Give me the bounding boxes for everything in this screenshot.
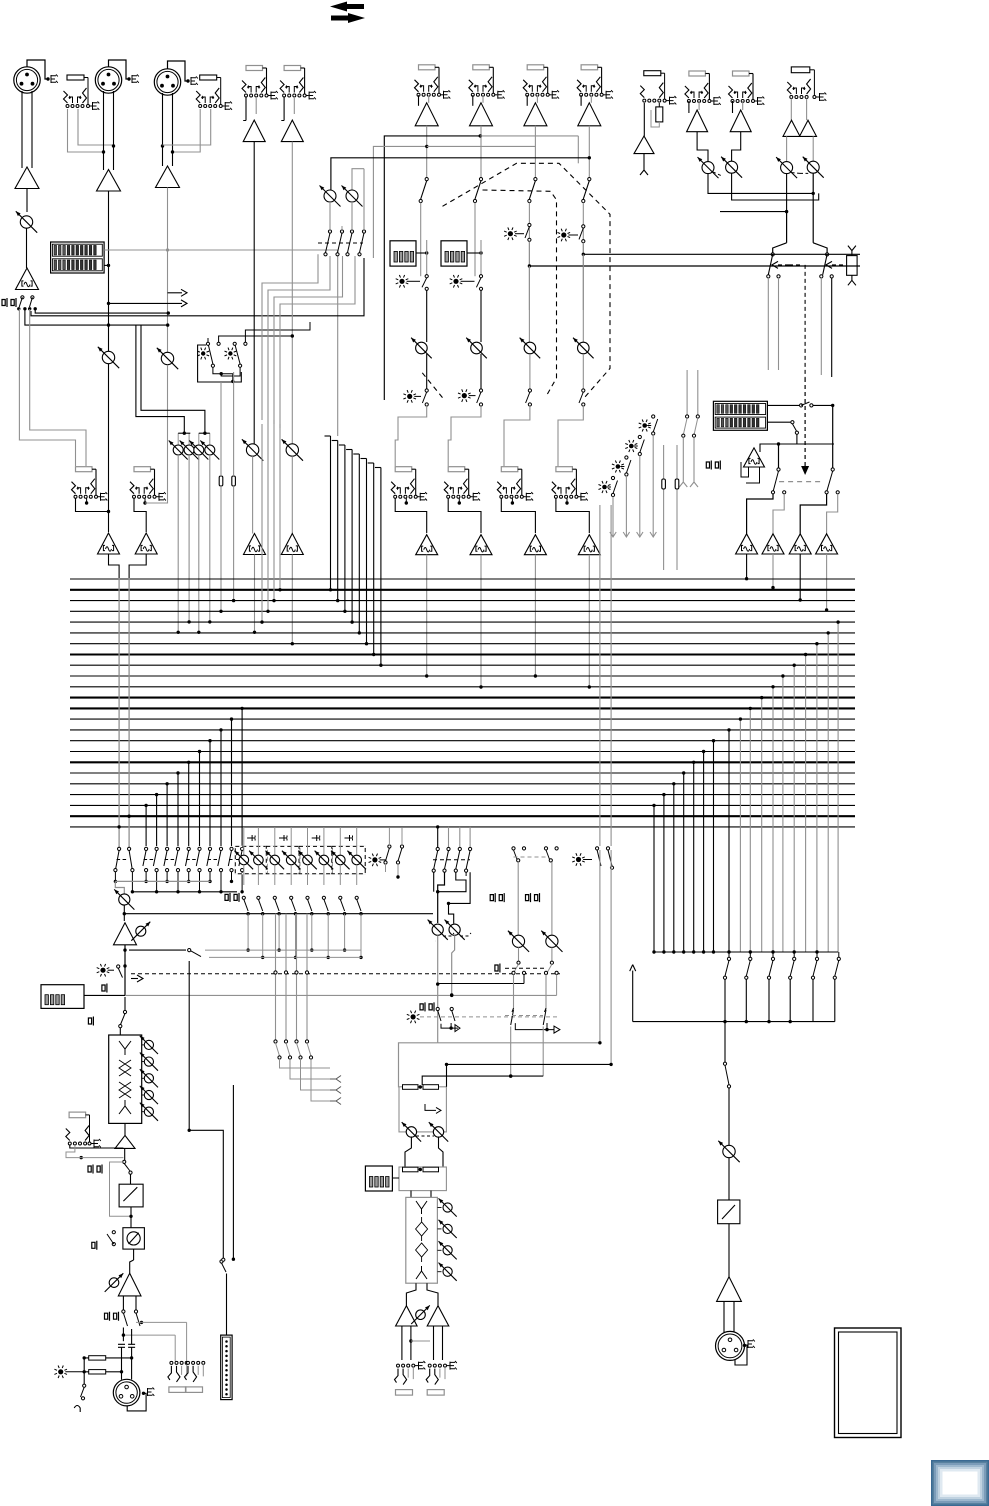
aux stereo amp 2: [730, 110, 751, 132]
LR wires to resistor net: [438, 983, 524, 985]
insert jack CH2: [76, 467, 93, 472]
wire jack3 down: [173, 109, 201, 152]
dashed vertical to master: [804, 265, 806, 378]
GEQ out amp: [124, 1123, 126, 1135]
master bus amps: [736, 534, 758, 554]
crossover box: [410, 1191, 412, 1198]
cross wires y135-157: [384, 136, 480, 400]
stereo line jack S1: [246, 66, 263, 71]
phones mixdown: [420, 1002, 425, 1011]
phones icon below pan: [225, 893, 230, 902]
return wire lower: [422, 1076, 543, 1085]
line jack CH3: [200, 75, 217, 80]
wire join tape: [786, 192, 813, 194]
switch CH7 CH8 low: [528, 389, 531, 392]
line input jack CH6: [473, 65, 490, 70]
line input jack CH7: [527, 65, 544, 70]
jack box wires S2: [283, 97, 285, 121]
limiter block main: [130, 1174, 132, 1184]
graphic EQ pots: [144, 1040, 153, 1049]
EQ box small mid: [365, 1166, 392, 1191]
phones aux masters: [490, 893, 495, 902]
dashed routing hexagon inner: [483, 190, 557, 395]
pan mode icons: [247, 835, 255, 841]
monitor out jacks: [397, 1364, 400, 1367]
monitor amps: [406, 1283, 416, 1306]
pan pot dashed boxes: [235, 846, 267, 873]
wire CH8 down: [588, 126, 590, 179]
wire meter row2: [104, 264, 108, 266]
record select switch box: [198, 345, 242, 382]
aux master wires horiz: [205, 949, 362, 951]
mixdown switch columns: [436, 825, 439, 828]
strip switch CH7: [534, 178, 537, 181]
input amp CH8: [578, 103, 601, 126]
aux stereo amp 1: [687, 110, 708, 132]
gray loop to resistor network: [399, 1043, 438, 1087]
bus left vertical pair: [118, 578, 120, 847]
group assign switch bank: [118, 847, 121, 850]
mute LED+switch CH8: [561, 232, 566, 237]
mono line jack with resistor: [644, 71, 661, 76]
channel pots CH2 CH3: [102, 351, 114, 363]
monitor pots pair: [324, 190, 336, 202]
termination resistor: [656, 107, 663, 122]
main out jacks: [170, 1361, 173, 1364]
mono out amp: [717, 1277, 742, 1302]
wire CH2 XLR to preamp: [103, 91, 105, 170]
bus top mini staircase: [291, 642, 294, 645]
gray bus return wires: [599, 505, 601, 846]
aux master insert switches: [518, 947, 520, 961]
assign bank pair dashes: [117, 859, 128, 861]
bus left staircase taps: [145, 805, 147, 846]
XLR input CH3: [154, 69, 180, 95]
DB25 feed: [226, 1274, 228, 1336]
preamp A2: [97, 170, 121, 192]
wire CH6 down: [480, 126, 482, 179]
XLR input CH2: [95, 67, 121, 93]
solo feed lines: [686, 370, 688, 415]
phase switch: [112, 1231, 115, 1234]
mute switches CH1: [21, 296, 24, 299]
dashed mono arrow: [804, 378, 806, 468]
line amp S1: [243, 120, 265, 142]
aux master pots: [512, 935, 524, 947]
phase reverse block: [123, 1228, 144, 1249]
wire to mono amp: [728, 1224, 730, 1277]
line jack CH1: [67, 75, 84, 80]
mix bus lines: [70, 578, 855, 580]
aux master down wires: [510, 1027, 512, 1077]
wire top routing 1: [363, 169, 365, 230]
wire meter row1 to CH3: [104, 249, 338, 251]
legend box: [835, 1328, 902, 1438]
dashed talkback line: [131, 973, 560, 975]
output caps: [118, 1344, 125, 1347]
meter wire L: [767, 404, 799, 406]
crossover pots: [443, 1203, 452, 1212]
main XLR out: [113, 1379, 140, 1406]
aux master lines: [517, 862, 519, 936]
solo bus arrow up: [632, 971, 634, 1022]
aux send wires CH7 CH8: [528, 241, 530, 266]
signal direction arrows: [330, 2, 364, 12]
main out tap wires: [136, 1321, 187, 1323]
wire CH5 down: [426, 126, 428, 179]
graphic EQ box: [109, 1035, 142, 1123]
return wire upper: [447, 1064, 612, 1086]
fader switch row: [242, 896, 245, 899]
ground lift switch: [83, 1372, 85, 1384]
gain pot CH1: [20, 216, 32, 228]
EQ block CH6: [441, 241, 467, 266]
aux post arrow: [515, 1023, 554, 1030]
wire CH7 down: [534, 126, 536, 179]
power LED: [58, 1369, 63, 1374]
strip switch CH5: [425, 178, 428, 181]
wire pot to limiter amp: [26, 228, 28, 268]
input amp CH7: [524, 103, 547, 126]
bus right bar: [654, 951, 838, 953]
EQ to main box: [41, 985, 84, 1009]
comp amp CH3: [135, 533, 157, 554]
output resistors: [89, 1356, 106, 1360]
monitor bank wires down-left: [262, 254, 318, 420]
left master wire down: [124, 945, 126, 996]
tape patch points: [220, 382, 222, 475]
antenna below amp: [643, 154, 645, 165]
line input jack CH8: [581, 65, 598, 70]
aux master top switches: [512, 847, 515, 850]
strip wires upper: [420, 225, 422, 276]
level pots CH5-8: [416, 342, 428, 354]
EQ LED+switch CH5: [399, 279, 404, 284]
wire A1 out: [26, 189, 28, 213]
comp amp CH2: [98, 533, 120, 554]
phones left2: [102, 984, 107, 993]
XLR input CH1: [14, 67, 40, 93]
aux stereo jack 2: [733, 71, 750, 76]
input amp CH5: [415, 103, 438, 126]
direct out arrows: [168, 292, 172, 294]
dashed routing hexagon outer: [443, 163, 611, 397]
page corner button: [931, 1460, 989, 1506]
network pots: [406, 1127, 416, 1137]
insert jack CH3: [134, 467, 151, 472]
left master pot: [115, 881, 124, 893]
aux stereo jack 1: [689, 71, 706, 76]
aux feed wires: [178, 432, 190, 434]
dashed gray link: [779, 481, 824, 483]
EQ block CH5: [390, 241, 416, 266]
monitor wires down: [767, 278, 769, 370]
switch to GEQ: [123, 1010, 126, 1013]
line amp mono: [643, 103, 645, 136]
mixdown LED: [411, 1014, 416, 1019]
phones phase: [92, 1241, 97, 1250]
monitor LED: [100, 968, 105, 973]
matrix level pot: [723, 1145, 735, 1157]
wire S2 down: [291, 142, 293, 445]
wire A3 out: [167, 188, 169, 353]
aux master switches right: [596, 847, 599, 850]
aux return wires: [70, 1145, 124, 1148]
monitor source switches: [771, 253, 774, 256]
pan LED+switch CH5: [407, 394, 412, 399]
wires to master amps: [747, 494, 773, 534]
main out switches: [122, 1310, 125, 1313]
wires to insert jacks: [395, 406, 427, 466]
wire jack1 down: [68, 109, 104, 152]
aux send pots row: [177, 433, 179, 444]
wire comp CH2 to bus: [109, 554, 120, 578]
wire CH3 XLR to preamp: [162, 93, 164, 166]
phones main2: [105, 1312, 110, 1321]
input amp CH6: [470, 103, 493, 126]
aux master faders: [511, 1010, 514, 1025]
wires pair1 to mix: [697, 132, 708, 162]
monitor out wires: [401, 1326, 403, 1360]
record box feeds: [219, 336, 293, 342]
aux master contacts row: [274, 971, 277, 974]
matrix limiter box: [718, 1200, 740, 1224]
wire CH1 XLR to preamp: [21, 91, 23, 168]
resistor network upper: [399, 1087, 446, 1132]
meter LED bargraph CH1: [51, 242, 105, 273]
dashed select arrows: [777, 264, 789, 266]
tape wires down: [786, 174, 788, 212]
trapezoid down to monitor switches: [773, 243, 787, 255]
tape in amps: [790, 99, 792, 121]
mixdown insert switches: [436, 1007, 439, 1010]
wire CH1 bus sends: [35, 309, 168, 313]
solo amp: [744, 448, 765, 467]
phones icon master: [706, 461, 711, 470]
mute LED+switch CH7: [508, 231, 513, 236]
matrix switches below bar: [728, 952, 730, 957]
main out amp: [133, 1249, 135, 1260]
monitor switch bank top: [328, 230, 331, 233]
preamp A3: [156, 166, 180, 188]
matrix sum wire: [633, 1021, 835, 1023]
bus group right staircase: [653, 805, 655, 952]
DB25 direct outs: [221, 1335, 232, 1400]
wire comp CH3 to bus: [129, 554, 146, 578]
insert jacks CH5-8: [395, 467, 412, 472]
tape in jack: [791, 67, 810, 73]
pan pots: [243, 827, 245, 855]
aux out trio lines: [275, 914, 277, 971]
matrix master chain: [724, 1022, 726, 1062]
tb arrow: [441, 1024, 458, 1028]
headphones icon CH1: [2, 298, 7, 307]
meter wire R: [767, 421, 790, 423]
DB25 feed lines from top: [188, 961, 190, 1130]
main insert switch: [123, 1160, 126, 1163]
aux master contacts: [512, 971, 515, 974]
patch bars mid right: [663, 445, 665, 570]
pan LED+switch CH6: [462, 393, 467, 398]
jack box wires S1: [245, 97, 247, 121]
wires insert CH3 to comp amp: [143, 501, 146, 504]
pan LED: [372, 857, 377, 862]
pfl lines with switches: [602, 485, 607, 490]
fader row verticals down: [247, 914, 249, 950]
bus mid staircase from monitor bank: [261, 424, 263, 622]
strip switch CH6: [479, 178, 482, 181]
aux out fork arrows: [330, 1076, 341, 1083]
network lower: [405, 1137, 411, 1167]
wires insert CH2 to comp amp: [85, 501, 88, 504]
mixdown wires down: [437, 935, 439, 1043]
mono out XLR: [716, 1331, 745, 1360]
assign bank collector wires: [115, 880, 210, 882]
monitor switch: [117, 965, 120, 968]
control room switches: [777, 468, 780, 471]
mixdown pots: [432, 924, 443, 935]
aux master out wires: [523, 974, 525, 983]
wire to mono XLR: [723, 1301, 725, 1333]
wire A2 out: [108, 191, 110, 351]
line input jack CH5: [419, 65, 436, 70]
phones left3: [88, 1017, 93, 1026]
mixdown merge wires: [433, 872, 435, 892]
stereo channel pots: [246, 444, 258, 456]
stereo line jack S2: [284, 66, 301, 71]
bus aux tap group: [330, 436, 332, 590]
balance pots pair1: [702, 162, 714, 174]
lamp resistor: [848, 246, 856, 256]
mode switch right: [129, 949, 186, 951]
stereo comp amps: [244, 534, 266, 555]
limiter amp CH1: [16, 268, 39, 290]
line amp S2: [281, 120, 303, 142]
aux return jack: [69, 1112, 86, 1118]
EQ LED+switch CH6: [453, 279, 458, 284]
limiter bypass loop: [110, 1162, 132, 1216]
aux master LED: [576, 857, 581, 862]
main meter bargraph: [713, 401, 767, 430]
wire S1 down: [253, 142, 255, 445]
left master amp: [114, 923, 137, 945]
main out split: [122, 1296, 124, 1310]
dashed hexagon lower left: [420, 370, 443, 398]
wire CH1 down pair: [18, 309, 20, 340]
strip switch CH8: [588, 178, 591, 181]
phones main out: [88, 1165, 93, 1174]
pan switches right: [388, 845, 391, 848]
tape level pots: [786, 136, 788, 161]
preamp A1: [15, 167, 39, 189]
